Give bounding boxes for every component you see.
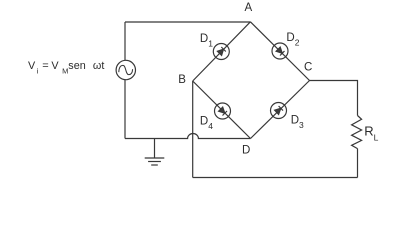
svg-text:D1: D1	[200, 33, 213, 49]
svg-text:sen: sen	[68, 60, 85, 72]
svg-text:ωt: ωt	[93, 60, 104, 72]
wire: bridge arm B to D	[193, 81, 251, 139]
svg-text:C: C	[304, 61, 312, 73]
wire: left branch upper segment	[124, 22, 126, 60]
wire: left branch lower segment	[124, 80, 126, 139]
wire: node C to right branch top	[310, 81, 358, 116]
svg-text:Vi: Vi	[28, 60, 39, 76]
value label Vi = VM sen wt	[28, 60, 104, 76]
wire: bottom-left rail from source to node D with hop over B wire	[125, 134, 251, 139]
AC source Vi	[116, 60, 135, 79]
svg-text:D: D	[242, 144, 250, 156]
wire: node B vertical down to bottom rail	[192, 81, 194, 178]
svg-text:D2: D2	[286, 32, 299, 48]
wire: bridge arm A to B	[193, 22, 251, 81]
wire: top rail from source top to node A	[125, 21, 250, 23]
diode D2	[272, 43, 288, 59]
svg-text:A: A	[245, 2, 253, 14]
wire: bridge arm A to C	[250, 22, 309, 81]
wire: RL bottom lead	[357, 149, 359, 178]
diode D3	[271, 103, 287, 119]
ground	[145, 139, 165, 165]
wire: bottom rail from B branch to RL bottom	[193, 177, 358, 179]
svg-text:=: =	[42, 60, 48, 72]
diode D1	[213, 44, 229, 60]
svg-text:B: B	[178, 74, 186, 86]
svg-text:D3: D3	[291, 114, 304, 129]
resistor RL	[352, 116, 362, 149]
wire: bridge arm D to C	[251, 81, 310, 139]
svg-text:VM: VM	[51, 60, 68, 76]
diode D4	[215, 103, 231, 119]
svg-text:D4: D4	[200, 116, 213, 132]
svg-text:RL: RL	[364, 124, 378, 143]
